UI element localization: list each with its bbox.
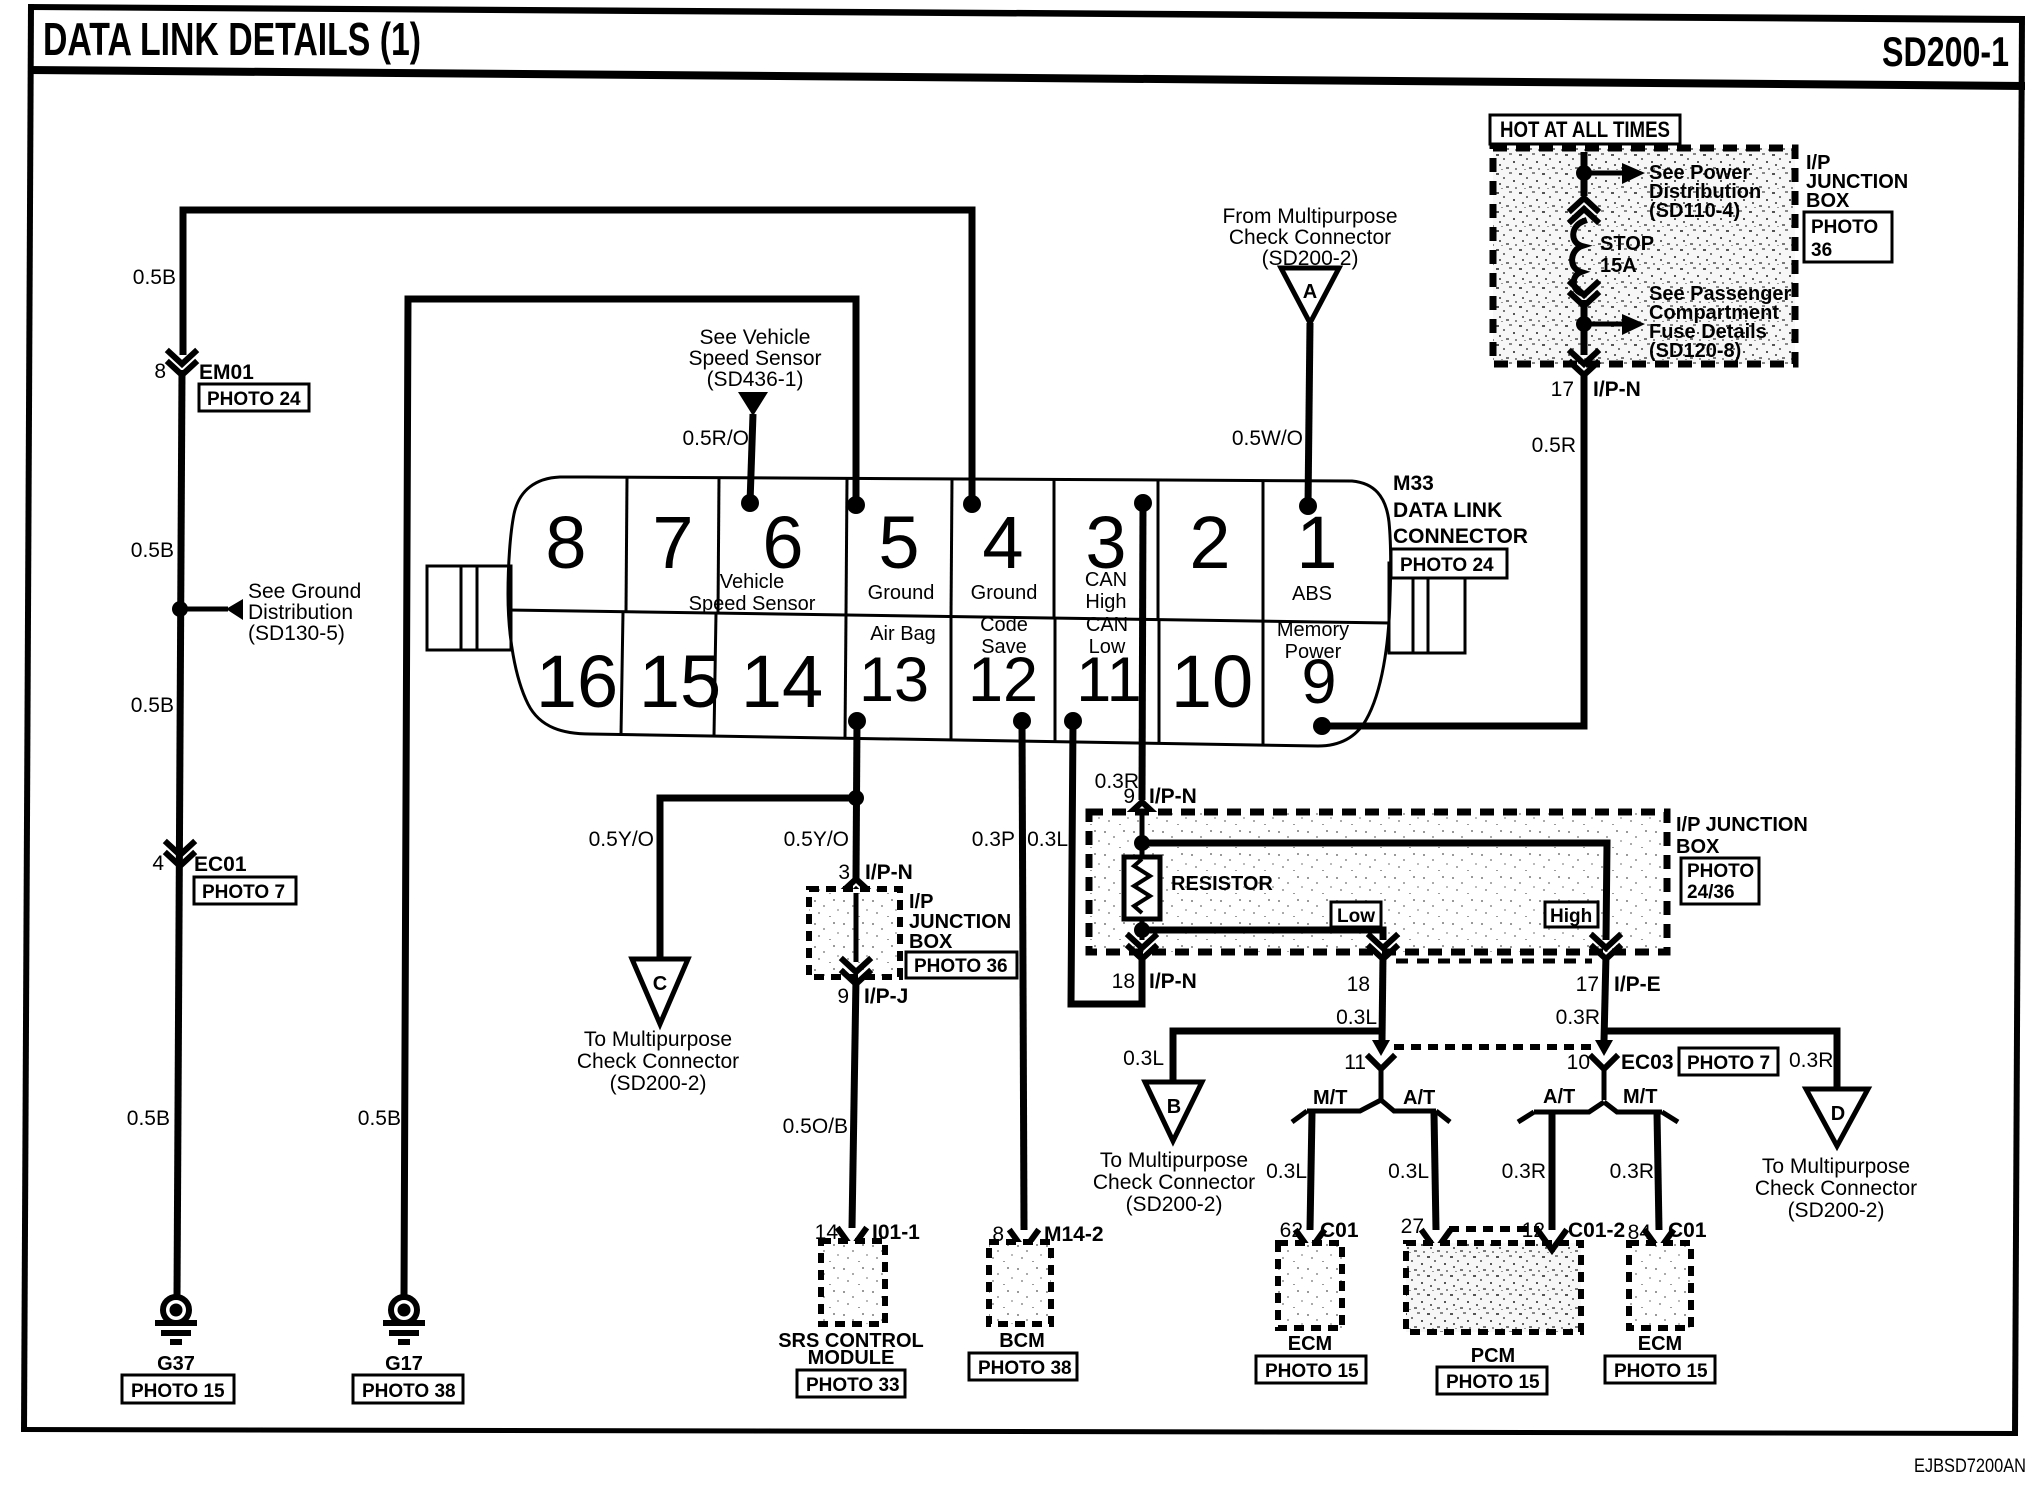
- svg-text:CAN: CAN: [1086, 614, 1128, 636]
- PCM dashed box: [1406, 1243, 1581, 1332]
- terminal 18 Low exit double chevron: [1370, 936, 1396, 959]
- svg-text:(SD120-8): (SD120-8): [1649, 340, 1741, 362]
- connector left mounting tab: [427, 566, 511, 650]
- svg-text:Save: Save: [981, 636, 1027, 658]
- svg-text:15A: 15A: [1600, 255, 1637, 277]
- svg-text:PCM: PCM: [1471, 1345, 1515, 1367]
- svg-text:Low: Low: [1337, 906, 1375, 927]
- small I/P junction box dashed outline: [809, 889, 900, 977]
- cell divider 13|12 bottom: [950, 617, 953, 740]
- svg-text:EM01: EM01: [199, 361, 254, 384]
- svg-text:PHOTO 15: PHOTO 15: [131, 1381, 225, 1402]
- dashed link between 27 and 12 terminals: [1449, 1226, 1539, 1232]
- svg-text:17: 17: [1551, 378, 1574, 401]
- svg-text:G17: G17: [385, 1353, 423, 1375]
- svg-text:STOP: STOP: [1600, 233, 1654, 255]
- inline connector 4 EC01 double chevron: [167, 843, 193, 866]
- wire 0.3R M/T branch down to ECM: [1657, 1113, 1659, 1230]
- cell divider 7|6 top: [718, 478, 719, 613]
- wire 0.5W/O from triangle A to pin 1: [1308, 323, 1310, 506]
- svg-text:B: B: [1167, 1096, 1181, 1118]
- pin 9 dot: [1313, 717, 1331, 735]
- svg-text:18: 18: [1347, 973, 1370, 996]
- SRS control module dashed box: [821, 1241, 885, 1324]
- svg-text:PHOTO 36: PHOTO 36: [914, 956, 1008, 977]
- ground symbol G17: [383, 1297, 425, 1342]
- svg-text:10: 10: [1567, 1051, 1590, 1074]
- svg-text:Check Connector: Check Connector: [1755, 1177, 1917, 1200]
- svg-text:PHOTO 7: PHOTO 7: [1687, 1053, 1770, 1074]
- svg-text:CONNECTOR: CONNECTOR: [1393, 525, 1528, 548]
- svg-text:0.3L: 0.3L: [1336, 1006, 1377, 1029]
- M/T A/T split below junction 11: [1292, 1069, 1450, 1122]
- cell divider 11|10 bottom: [1158, 620, 1161, 743]
- cell divider 6|5 top: [846, 479, 847, 615]
- fuse STOP 15A coil element: [1572, 221, 1584, 294]
- svg-text:PHOTO: PHOTO: [1687, 861, 1754, 882]
- svg-text:M/T: M/T: [1623, 1086, 1657, 1108]
- svg-text:0.5B: 0.5B: [133, 266, 176, 289]
- branch wire to triangle D: [1604, 1031, 1837, 1089]
- svg-text:I/P-N: I/P-N: [1149, 785, 1197, 808]
- PHOTO 36 label box (fuse box): [1804, 212, 1892, 262]
- svg-text:ECM: ECM: [1638, 1333, 1682, 1355]
- terminal chevron 27: [1423, 1232, 1449, 1250]
- junction dot to power distribution: [1576, 165, 1592, 181]
- terminal 3 I/P-N entry double chevron up: [843, 879, 869, 902]
- svg-text:Check Connector: Check Connector: [1093, 1171, 1255, 1194]
- wire CAN Low branch to Low exit: [1142, 930, 1383, 940]
- resistor element: [1124, 857, 1160, 919]
- svg-text:0.5W/O: 0.5W/O: [1232, 427, 1303, 450]
- svg-text:16: 16: [536, 640, 618, 723]
- svg-text:0.5Y/O: 0.5Y/O: [589, 828, 654, 851]
- PHOTO 24/36 label box: [1681, 858, 1759, 904]
- svg-text:JUNCTION: JUNCTION: [909, 911, 1011, 933]
- connector right mounting tab: [1389, 563, 1465, 653]
- PHOTO 24 label box for EM01: [199, 384, 309, 411]
- svg-text:DATA LINK: DATA LINK: [1393, 499, 1502, 522]
- branch arrow See Power Distribution: [1584, 171, 1625, 176]
- svg-text:5: 5: [878, 501, 919, 584]
- svg-text:M/T: M/T: [1313, 1087, 1347, 1109]
- svg-text:High: High: [1550, 906, 1592, 927]
- svg-text:M33: M33: [1393, 472, 1434, 495]
- wire 0.5Y/O from pin 13 Air Bag down: [856, 721, 857, 878]
- svg-text:HOT AT ALL TIMES: HOT AT ALL TIMES: [1500, 117, 1670, 142]
- svg-text:A: A: [1303, 281, 1317, 303]
- cell divider 3|2 top: [1157, 480, 1160, 620]
- svg-text:Ground: Ground: [971, 582, 1038, 604]
- cell divider 2|1 top: [1262, 480, 1265, 621]
- svg-text:ECM: ECM: [1288, 1333, 1332, 1355]
- High label box: [1545, 902, 1598, 927]
- svg-text:A/T: A/T: [1543, 1086, 1575, 1108]
- svg-text:PHOTO 24: PHOTO 24: [207, 389, 301, 410]
- PHOTO 38 label box for G17: [353, 1375, 463, 1403]
- svg-text:0.5B: 0.5B: [358, 1107, 401, 1130]
- A/T M/T split below junction 10: [1518, 1069, 1678, 1122]
- svg-text:To Multipurpose: To Multipurpose: [1100, 1149, 1248, 1172]
- svg-text:Memory: Memory: [1277, 619, 1349, 641]
- connector M33 outline body: [427, 477, 1465, 746]
- svg-text:DATA LINK DETAILS (1): DATA LINK DETAILS (1): [43, 13, 421, 65]
- svg-text:4: 4: [982, 501, 1023, 584]
- svg-text:(SD200-2): (SD200-2): [610, 1072, 707, 1095]
- svg-text:0.3L: 0.3L: [1027, 828, 1068, 851]
- cell divider 15|14 bottom: [714, 613, 716, 736]
- svg-text:PHOTO 15: PHOTO 15: [1614, 1361, 1708, 1382]
- svg-text:I/P-N: I/P-N: [1593, 378, 1641, 401]
- svg-text:Check Connector: Check Connector: [1229, 226, 1391, 249]
- fuse exit double chevron down: [1571, 283, 1597, 306]
- off-page triangle B: [1145, 1082, 1202, 1141]
- svg-text:RESISTOR: RESISTOR: [1171, 873, 1273, 895]
- svg-text:9: 9: [1123, 785, 1135, 808]
- svg-text:0.3R: 0.3R: [1502, 1160, 1546, 1183]
- PHOTO 24 label box for M33: [1391, 549, 1507, 578]
- svg-text:0.3P: 0.3P: [972, 828, 1015, 851]
- junction 11 arrow and chevron: [1369, 1040, 1393, 1069]
- svg-text:3: 3: [838, 861, 850, 884]
- wire inside small junction box: [854, 893, 859, 962]
- svg-text:Check Connector: Check Connector: [577, 1050, 739, 1073]
- wire from resistor to low dot: [1140, 919, 1145, 940]
- cell divider 14|13 bottom: [845, 615, 846, 738]
- svg-text:Air Bag: Air Bag: [870, 623, 936, 645]
- svg-text:BCM: BCM: [999, 1330, 1045, 1352]
- wire 0.3R from High exit down to junction 10: [1604, 955, 1606, 1041]
- svg-text:0.5R/O: 0.5R/O: [682, 427, 749, 450]
- wire 0.3L M/T branch down to ECM: [1310, 1113, 1312, 1230]
- svg-text:1: 1: [1296, 501, 1337, 584]
- svg-text:BOX: BOX: [1676, 836, 1720, 858]
- cell divider 8|7 top: [626, 478, 627, 612]
- svg-text:0.3R: 0.3R: [1556, 1006, 1600, 1029]
- svg-text:(SD110-4): (SD110-4): [1649, 200, 1740, 222]
- terminal chevron 8 M14-2: [1011, 1232, 1037, 1250]
- terminal chevron 62 C01: [1297, 1232, 1323, 1250]
- svg-text:10: 10: [1171, 640, 1253, 723]
- svg-text:0.5R: 0.5R: [1532, 434, 1576, 457]
- svg-text:0.3L: 0.3L: [1266, 1160, 1307, 1183]
- svg-text:Distribution: Distribution: [248, 601, 353, 624]
- svg-text:8: 8: [154, 360, 166, 383]
- junction dot ground distribution tap: [172, 601, 188, 617]
- PHOTO 36 label box (small box): [906, 952, 1017, 978]
- wire 0.5R from fuse box down and left to pin 9: [1322, 371, 1584, 726]
- svg-text:From Multipurpose: From Multipurpose: [1222, 205, 1397, 228]
- svg-text:I/P-E: I/P-E: [1614, 973, 1661, 996]
- pin 6 dot: [741, 494, 759, 512]
- ground symbol G37: [155, 1297, 197, 1342]
- ECM right dashed box: [1629, 1243, 1691, 1328]
- svg-text:M14-2: M14-2: [1044, 1223, 1104, 1246]
- svg-text:PHOTO 15: PHOTO 15: [1446, 1372, 1540, 1393]
- pin 3 dot: [1134, 494, 1152, 512]
- wire 0.5B from pin 5 up over to left and down to ground G17: [404, 299, 856, 1297]
- terminal 9 I/P-J exit double chevron: [843, 960, 869, 984]
- svg-text:(SD200-2): (SD200-2): [1788, 1199, 1885, 1222]
- svg-text:(SD200-2): (SD200-2): [1126, 1193, 1223, 1216]
- svg-text:0.5B: 0.5B: [127, 1107, 170, 1130]
- off-page triangle D: [1806, 1089, 1868, 1146]
- svg-text:Ground: Ground: [868, 582, 935, 604]
- svg-text:14: 14: [741, 640, 823, 723]
- svg-text:D: D: [1831, 1103, 1845, 1125]
- svg-text:0.3L: 0.3L: [1123, 1047, 1164, 1070]
- svg-text:0.5B: 0.5B: [131, 694, 174, 717]
- HOT AT ALL TIMES label box: [1490, 115, 1680, 144]
- wire from fuse to lower junction: [1581, 300, 1588, 355]
- svg-text:11: 11: [1344, 1051, 1366, 1074]
- svg-text:G37: G37: [157, 1353, 195, 1375]
- inline connector 8 EM01 double chevron: [169, 352, 195, 375]
- BCM dashed box: [989, 1242, 1051, 1324]
- terminal chevron 84 C01: [1646, 1232, 1672, 1250]
- cell divider 16|15 bottom: [621, 612, 623, 735]
- svg-text:0.3L: 0.3L: [1388, 1160, 1429, 1183]
- pin 4 dot: [963, 495, 981, 513]
- wire 0.3R from pin 3 CAN High down to I/P junction box: [1142, 503, 1143, 800]
- svg-text:8: 8: [545, 501, 586, 584]
- svg-text:EJBSD7200AN: EJBSD7200AN: [1914, 1456, 2026, 1477]
- arrowhead pointing left: [226, 599, 243, 620]
- PHOTO 15 label box for ECM right: [1605, 1356, 1715, 1383]
- svg-text:PHOTO 33: PHOTO 33: [806, 1375, 900, 1396]
- svg-text:To Multipurpose: To Multipurpose: [1762, 1155, 1910, 1178]
- wire 0.5O/B from I/P-J down to SRS control module: [852, 978, 856, 1228]
- cell divider 5|4 top: [951, 479, 952, 617]
- wire 0.5B from pin 4 up over to left and down to ground G37: [183, 210, 972, 504]
- svg-text:Vehicle: Vehicle: [720, 571, 785, 593]
- svg-text:ABS: ABS: [1292, 583, 1332, 605]
- pin 1 dot: [1299, 497, 1317, 515]
- pin 11 dot: [1064, 712, 1082, 730]
- terminal chevron 12 C01-2: [1539, 1232, 1565, 1250]
- svg-text:0.5Y/O: 0.5Y/O: [784, 828, 849, 851]
- PHOTO 15 label box for ECM left: [1256, 1356, 1366, 1383]
- wire from entry to resistor: [1140, 815, 1145, 857]
- svg-text:17: 17: [1576, 973, 1599, 996]
- PHOTO 33 label box for SRS: [797, 1370, 905, 1397]
- I/P junction box (resistor) dashed outline: [1089, 812, 1667, 952]
- svg-text:13: 13: [859, 645, 929, 715]
- svg-text:2: 2: [1189, 501, 1230, 584]
- cell divider 12|11 bottom: [1054, 618, 1057, 742]
- svg-text:BOX: BOX: [1806, 190, 1850, 212]
- Low label box: [1331, 902, 1381, 927]
- svg-text:7: 7: [652, 501, 693, 584]
- svg-text:0.5O/B: 0.5O/B: [783, 1115, 848, 1138]
- svg-text:To Multipurpose: To Multipurpose: [584, 1028, 732, 1051]
- svg-text:MODULE: MODULE: [808, 1347, 895, 1369]
- svg-text:I/P-N: I/P-N: [865, 861, 913, 884]
- svg-text:PHOTO: PHOTO: [1811, 217, 1878, 238]
- connector row divider: [508, 610, 1390, 623]
- svg-text:PHOTO 15: PHOTO 15: [1265, 1361, 1359, 1382]
- svg-text:SD200-1: SD200-1: [1882, 28, 2009, 75]
- wire 0.5R/O from VSS triangle to pin 6: [750, 414, 753, 503]
- branch wire to triangle C: [660, 798, 856, 959]
- pin 5 dot: [847, 496, 865, 514]
- terminal chevron 14 I01-1: [839, 1230, 865, 1248]
- wire 0.3L from Low exit down to junction 11: [1382, 955, 1383, 1041]
- PHOTO 7 label box for EC03: [1679, 1048, 1778, 1075]
- wire CAN High branch to High exit: [1142, 843, 1607, 940]
- svg-text:I/P-J: I/P-J: [864, 985, 908, 1008]
- svg-text:0.5B: 0.5B: [131, 539, 174, 562]
- off-page triangle A: [1281, 268, 1339, 323]
- svg-text:C01-2: C01-2: [1568, 1219, 1625, 1242]
- svg-text:0.3R: 0.3R: [1789, 1049, 1833, 1072]
- junction dot to passenger fuse details: [1576, 316, 1592, 332]
- fuse entry double chevron up: [1571, 198, 1597, 221]
- svg-text:9: 9: [837, 985, 849, 1008]
- svg-text:27: 27: [1401, 1215, 1424, 1238]
- PHOTO 7 label box for EC01: [194, 877, 296, 904]
- svg-text:I/P: I/P: [909, 891, 933, 913]
- svg-text:PHOTO 38: PHOTO 38: [978, 1358, 1072, 1379]
- junction dot below resistor: [1134, 922, 1150, 938]
- wire from 18 I/P-N down left and up to pin 11 CAN Low: [1071, 721, 1142, 1004]
- PHOTO 15 label box for PCM: [1437, 1367, 1547, 1394]
- svg-text:4: 4: [152, 852, 164, 875]
- svg-text:EC01: EC01: [194, 853, 247, 876]
- svg-text:Code: Code: [980, 614, 1028, 636]
- svg-text:Power: Power: [1285, 641, 1342, 663]
- svg-text:PHOTO 7: PHOTO 7: [202, 882, 285, 903]
- svg-text:18: 18: [1112, 970, 1135, 993]
- pin 12 dot: [1013, 712, 1031, 730]
- dashed link between terminal 18 Low and terminal 17 I/P-E: [1396, 959, 1592, 964]
- svg-text:15: 15: [639, 640, 721, 723]
- solid triangle to vehicle speed sensor: [738, 392, 768, 416]
- svg-text:I/P JUNCTION: I/P JUNCTION: [1676, 814, 1808, 836]
- pin 13 dot: [848, 712, 866, 730]
- cell divider 4|3 top: [1053, 480, 1056, 618]
- svg-text:EC03: EC03: [1621, 1051, 1674, 1074]
- branch arrow See Passenger Compartment Fuse Details: [1584, 322, 1625, 327]
- branch wire to triangle B: [1173, 1031, 1382, 1082]
- branch wire to See Ground Distribution arrow: [180, 607, 228, 612]
- terminal 17 I/P-E exit double chevron: [1593, 936, 1619, 959]
- off-page triangle C: [632, 959, 688, 1024]
- PHOTO 15 label box for G37: [122, 1375, 234, 1403]
- junction dot air bag branch: [848, 790, 864, 806]
- svg-text:I/P-N: I/P-N: [1149, 970, 1197, 993]
- ECM left dashed box: [1278, 1243, 1342, 1328]
- junction dot above resistor: [1134, 835, 1150, 851]
- cell divider 10|9 bottom: [1262, 621, 1265, 745]
- terminal 9 I/P-N entry double chevron up: [1129, 802, 1155, 825]
- svg-text:High: High: [1085, 591, 1126, 613]
- svg-text:See Ground: See Ground: [248, 580, 361, 603]
- junction 10 arrow and chevron: [1592, 1040, 1616, 1069]
- PHOTO 38 label box for BCM: [969, 1353, 1077, 1380]
- dashed link between junction 11 and junction 10: [1394, 1044, 1592, 1050]
- svg-text:Low: Low: [1089, 636, 1126, 658]
- svg-text:PHOTO 38: PHOTO 38: [362, 1381, 456, 1402]
- svg-text:BOX: BOX: [909, 931, 953, 953]
- wire 0.5R inside fuse box upper stub: [1581, 152, 1588, 196]
- svg-text:0.3R: 0.3R: [1610, 1160, 1654, 1183]
- svg-text:See Vehicle: See Vehicle: [700, 326, 811, 349]
- svg-text:C: C: [653, 973, 667, 995]
- svg-text:A/T: A/T: [1403, 1087, 1435, 1109]
- wire 0.3L A/T branch down to PCM: [1434, 1113, 1436, 1230]
- wire 0.3R A/T branch down to PCM: [1549, 1113, 1556, 1230]
- svg-text:(SD130-5): (SD130-5): [248, 622, 345, 645]
- svg-text:Speed Sensor: Speed Sensor: [688, 347, 821, 370]
- svg-text:24/36: 24/36: [1687, 882, 1735, 903]
- svg-text:PHOTO 24: PHOTO 24: [1400, 555, 1494, 576]
- svg-text:Speed Sensor: Speed Sensor: [689, 593, 816, 615]
- svg-text:(SD436-1): (SD436-1): [707, 368, 804, 391]
- I/P junction box (fuse) dashed outline with speckle fill: [1493, 148, 1795, 364]
- terminal 17 I/P-N exit double chevron: [1571, 352, 1597, 375]
- wire 0.3P from pin 12 Code Save down to BCM: [1022, 721, 1024, 1230]
- svg-text:CAN: CAN: [1085, 569, 1127, 591]
- svg-text:36: 36: [1811, 240, 1832, 261]
- terminal 18 I/P-N exit double chevron: [1129, 936, 1155, 959]
